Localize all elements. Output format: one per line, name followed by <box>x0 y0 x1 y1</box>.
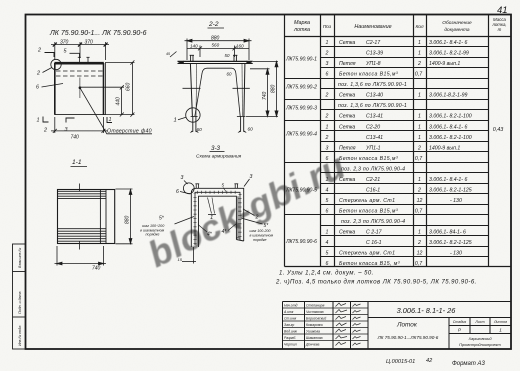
svg-text:1. Узлы 1,2,4 см. докум.: 1. Узлы 1,2,4 см. докум. – 50. <box>279 271 374 277</box>
3-3 U outline <box>191 188 243 247</box>
svg-text:1: 1 <box>418 40 421 46</box>
svg-text:1: 1 <box>174 118 177 124</box>
plan dashed wall lines <box>56 71 103 76</box>
svg-text:Сетка: Сетка <box>339 125 355 131</box>
title block role/name texts <box>283 304 326 347</box>
svg-text:370: 370 <box>85 40 94 46</box>
svg-text:140: 140 <box>190 43 198 48</box>
svg-text:1: 1 <box>418 93 421 99</box>
svg-text:поз. 1,3,6 по ЛК75.90.90-1: поз. 1,3,6 по ЛК75.90.90-1 <box>338 103 407 109</box>
svg-text:Кол: Кол <box>415 24 423 30</box>
svg-text:поз. 2,3 по ЛК75.90.90-4: поз. 2,3 по ЛК75.90.90-4 <box>341 167 405 173</box>
svg-text:2: 2 <box>417 61 421 67</box>
svg-text:Зав.гр: Зав.гр <box>284 323 294 327</box>
svg-text:Нач.отд: Нач.отд <box>284 304 297 308</box>
svg-text:ЛК75.90.90-2: ЛК75.90.90-2 <box>285 85 317 91</box>
svg-text:Петля: Петля <box>339 146 356 152</box>
svg-text:3.006.1- 8.2-1-125: 3.006.1- 8.2-1-125 <box>429 188 472 194</box>
svg-text:3.006.1- 8.4-1- 6: 3.006.1- 8.4-1- 6 <box>429 125 467 131</box>
svg-text:6: 6 <box>36 85 39 91</box>
svg-text:Петля: Петля <box>339 61 356 67</box>
svg-text:3.006.1- 8.1-1- 26: 3.006.1- 8.1-1- 26 <box>397 306 457 315</box>
svg-text:370: 370 <box>60 40 69 46</box>
svg-text:Борисовский: Борисовский <box>306 317 326 321</box>
svg-text:1: 1 <box>499 328 502 333</box>
svg-text:1: 1 <box>326 40 329 46</box>
svg-text:3: 3 <box>181 175 184 181</box>
svg-text:2: 2 <box>325 114 329 120</box>
svg-text:2-2: 2-2 <box>208 21 219 28</box>
svg-text:6: 6 <box>326 261 329 267</box>
svg-text:С13-39: С13-39 <box>366 51 383 57</box>
table rows text <box>325 40 472 267</box>
column кол numbers <box>415 40 423 267</box>
svg-text:Формат А3: Формат А3 <box>452 361 485 367</box>
2-2 left leg <box>190 64 199 134</box>
svg-text:3: 3 <box>250 174 253 180</box>
svg-text:порядке: порядке <box>253 238 267 242</box>
left margin strip <box>13 244 26 349</box>
svg-text:Степанцов: Степанцов <box>306 304 325 308</box>
svg-text:Ст.инж: Ст.инж <box>284 317 297 321</box>
svg-text:3.006.1- 8.2-1-125: 3.006.1- 8.2-1-125 <box>429 240 472 246</box>
plan corner detail circle 2 <box>51 59 61 69</box>
svg-text:т: т <box>498 27 502 32</box>
2-2 45 chamfer tick <box>170 52 177 58</box>
svg-text:660: 660 <box>126 82 132 91</box>
3-3 right inner mesh <box>236 196 239 238</box>
svg-text:740: 740 <box>262 91 268 100</box>
svg-text:0,7: 0,7 <box>415 261 423 267</box>
plan square <box>55 62 106 115</box>
svg-text:3-3: 3-3 <box>211 145 221 152</box>
svg-text:60: 60 <box>197 127 203 133</box>
svg-text:1: 1 <box>326 177 329 183</box>
svg-text:документа: документа <box>444 27 470 33</box>
2-2 top slab <box>178 61 253 64</box>
svg-text:5: 5 <box>326 251 329 257</box>
svg-text:3.006.1- 8.4-1- 6: 3.006.1- 8.4-1- 6 <box>429 40 467 46</box>
svg-text:880: 880 <box>271 84 277 93</box>
svg-text:С 2-17: С 2-17 <box>366 230 383 236</box>
svg-text:ЛК75.90.90-4: ЛК75.90.90-4 <box>285 132 317 138</box>
svg-text:1: 1 <box>326 125 329 131</box>
svg-text:Чертил: Чертил <box>284 343 297 347</box>
svg-text:5: 5 <box>326 198 329 204</box>
svg-text:Обозначение: Обозначение <box>442 20 472 26</box>
bottom margin texts <box>386 358 485 367</box>
svg-text:Вед.инж: Вед.инж <box>284 330 298 334</box>
3-3 bottom-left extension <box>182 247 196 264</box>
svg-text:ЛК75.90.90-6: ЛК75.90.90-6 <box>285 239 317 245</box>
svg-text:3: 3 <box>326 146 329 152</box>
svg-text:880: 880 <box>125 215 131 224</box>
notes <box>275 271 477 286</box>
2-2 right dim 880 <box>253 61 278 116</box>
svg-text:2: 2 <box>255 215 259 221</box>
svg-text:С13-41: С13-41 <box>366 114 383 120</box>
svg-text:Инв.№ подл.: Инв.№ подл. <box>18 325 22 346</box>
svg-text:2: 2 <box>37 48 41 54</box>
svg-text:2: 2 <box>325 51 329 57</box>
signatures squiggles <box>336 303 361 346</box>
svg-text:560: 560 <box>212 43 220 48</box>
2-2 leg mid ticks <box>183 87 250 89</box>
svg-text:Бетон класса В15,м³: Бетон класса В15,м³ <box>339 72 398 78</box>
2-2 right leg <box>237 64 247 134</box>
1-1 body <box>58 189 115 244</box>
svg-text:поз. 2,3 по ЛК75.90.90-4: поз. 2,3 по ЛК75.90.90-4 <box>341 219 405 225</box>
svg-text:0,7: 0,7 <box>415 156 423 162</box>
svg-text:Ц.00015-01: Ц.00015-01 <box>386 359 415 365</box>
leader to hole label <box>80 88 152 134</box>
svg-text:4: 4 <box>326 188 329 194</box>
svg-text:поз. 1,3,6 по ЛК75.90.90-1: поз. 1,3,6 по ЛК75.90.90-1 <box>338 82 407 88</box>
2-2 inner cavity <box>195 68 240 116</box>
svg-text:2: 2 <box>417 188 421 194</box>
svg-text:880: 880 <box>211 36 220 42</box>
svg-text:1: 1 <box>109 117 112 123</box>
svg-text:440: 440 <box>116 97 122 106</box>
svg-text:Ушакова: Ушакова <box>306 330 320 334</box>
svg-text:2: 2 <box>417 146 421 152</box>
svg-text:740: 740 <box>71 135 80 141</box>
svg-text:3: 3 <box>326 61 329 67</box>
1-1 centre ticks <box>79 184 81 250</box>
svg-text:порядке: порядке <box>146 233 160 237</box>
2-2 dim 880 top <box>185 39 252 61</box>
svg-text:2: 2 <box>325 93 329 99</box>
svg-text:160: 160 <box>236 43 244 48</box>
2-2 dim 140/560/160 <box>187 46 249 58</box>
left strip vertical labels <box>18 248 22 346</box>
svg-text:Марка: Марка <box>294 20 310 26</box>
svg-text:6: 6 <box>326 72 329 78</box>
svg-text:Сетка: Сетка <box>339 114 355 120</box>
plan right dim 440 <box>80 85 124 116</box>
svg-text:50: 50 <box>225 53 230 58</box>
plan center hole <box>79 86 82 89</box>
watermark block-gbi.ru <box>0 0 1 1</box>
svg-text:1: 1 <box>418 51 421 57</box>
2-2 detail circle 1 <box>186 108 200 122</box>
svg-text:Промстройниипроект: Промстройниипроект <box>459 342 501 347</box>
svg-text:1: 1 <box>418 125 421 131</box>
svg-text:3.006.1- 8.4-1- 6: 3.006.1- 8.4-1- 6 <box>429 177 467 183</box>
svg-text:2: 2 <box>325 135 329 141</box>
svg-text:С13-40: С13-40 <box>366 93 383 99</box>
svg-text:Поз: Поз <box>323 24 332 30</box>
svg-text:41: 41 <box>497 5 508 16</box>
svg-text:Сетка: Сетка <box>339 177 355 183</box>
svg-text:УП1-8: УП1-8 <box>366 61 381 67</box>
svg-text:6: 6 <box>326 209 329 215</box>
svg-text:42: 42 <box>426 358 433 364</box>
svg-text:Бетон класса В15, м³: Бетон класса В15, м³ <box>339 261 400 267</box>
svg-text:УП1-1: УП1-1 <box>366 146 381 152</box>
svg-text:С2-20: С2-20 <box>366 125 380 131</box>
svg-text:лотка: лотка <box>293 27 310 33</box>
3-3 mesh with stirrup ticks <box>195 192 240 245</box>
svg-text:С16-1: С16-1 <box>366 188 380 194</box>
svg-text:1400-9 вып.1: 1400-9 вып.1 <box>429 61 460 67</box>
svg-text:3: 3 <box>65 127 68 133</box>
svg-text:Листов: Листов <box>493 320 507 324</box>
svg-text:3.006.1-8.2-1-99: 3.006.1-8.2-1-99 <box>429 93 467 99</box>
svg-text:Взам.инв.№: Взам.инв.№ <box>18 248 22 268</box>
svg-text:12: 12 <box>417 251 423 257</box>
svg-text:ЛК75.90.90-3: ЛК75.90.90-3 <box>285 106 317 112</box>
column наименование <box>338 40 407 267</box>
stage mini table <box>453 320 507 333</box>
svg-text:Бетон класса В15,м³: Бетон класса В15,м³ <box>339 209 398 215</box>
svg-text:2: 2 <box>417 240 421 246</box>
3-3 callout circle top-left <box>183 183 194 194</box>
svg-text:в шахматном: в шахматном <box>250 234 274 238</box>
svg-text:Сетка: Сетка <box>339 40 355 46</box>
svg-text:Отверстие ф40: Отверстие ф40 <box>107 129 152 135</box>
svg-text:Разраб.: Разраб. <box>284 336 296 340</box>
svg-text:Стержень арм. Ст1: Стержень арм. Ст1 <box>339 198 395 204</box>
svg-text:Лоток: Лоток <box>396 322 418 329</box>
1-1 top band lines <box>57 191 106 198</box>
row lines <box>285 47 489 257</box>
svg-text:ЛК 75.90.90-1... ЛК 75.90.90-6: ЛК 75.90.90-1... ЛК 75.90.90-6 <box>49 30 147 37</box>
3-3 loop hooks above slab <box>195 184 238 189</box>
svg-text:2: 2 <box>36 71 40 77</box>
svg-text:3.006.1- 8.2-1-100: 3.006.1- 8.2-1-100 <box>429 135 472 141</box>
svg-text:740: 740 <box>92 266 101 272</box>
svg-text:А.инж: А.инж <box>283 310 294 314</box>
table grid <box>285 15 512 267</box>
svg-text:2. ч)Поз. 4,5 только для л: 2. ч)Поз. 4,5 только для лотков ЛК 75.90… <box>275 280 477 286</box>
svg-text:- 130: - 130 <box>450 198 462 204</box>
svg-text:С13-41: С13-41 <box>366 135 383 141</box>
svg-text:60: 60 <box>248 127 254 133</box>
svg-text:1: 1 <box>418 230 421 236</box>
1-1 right dim 880 <box>116 189 133 244</box>
svg-text:1: 1 <box>210 215 213 221</box>
svg-text:1: 1 <box>326 230 329 236</box>
svg-text:6: 6 <box>326 156 329 162</box>
1-1 bottom dim 740 <box>55 246 107 266</box>
svg-text:- 130: - 130 <box>450 251 462 257</box>
svg-text:6: 6 <box>176 189 179 195</box>
svg-text:3.006.1- 8.2-1-100: 3.006.1- 8.2-1-100 <box>429 114 472 120</box>
plan bottom dim 740 <box>51 117 108 133</box>
svg-text:Сетка: Сетка <box>339 230 355 236</box>
svg-text:Бетон класса В15,м³: Бетон класса В15,м³ <box>339 156 398 162</box>
column обозначение документа <box>429 40 472 257</box>
svg-text:Стадия: Стадия <box>453 320 467 324</box>
svg-text:60: 60 <box>227 72 232 77</box>
marka labels <box>285 57 317 246</box>
svg-text:5: 5 <box>222 183 225 188</box>
svg-text:3.006.1- 8.2-1-99: 3.006.1- 8.2-1-99 <box>429 51 469 57</box>
title block small rows <box>283 308 369 341</box>
2-2 loop hooks above slab <box>190 55 238 61</box>
svg-text:Шаманова: Шаманова <box>306 336 323 340</box>
svg-text:1: 1 <box>37 118 40 124</box>
svg-text:45: 45 <box>166 52 170 56</box>
svg-text:1-1: 1-1 <box>72 159 82 166</box>
svg-text:С2-21: С2-21 <box>366 177 380 183</box>
svg-text:С2-17: С2-17 <box>366 40 381 46</box>
svg-text:Комаровск: Комаровск <box>306 323 323 327</box>
svg-text:Сетка: Сетка <box>339 93 355 99</box>
plan bottom flag 3 <box>66 118 75 123</box>
svg-text:ЛК 75.90.90-1...ЛК75.90.90-6: ЛК 75.90.90-1...ЛК75.90.90-6 <box>377 335 439 340</box>
column поз numbers <box>325 40 329 267</box>
svg-text:2: 2 <box>43 128 47 134</box>
2-2 right dim 740 <box>246 69 278 117</box>
svg-text:ЛК75.90.90-5: ЛК75.90.90-5 <box>285 188 317 194</box>
svg-text:Схема армирования: Схема армирования <box>196 154 242 160</box>
svg-text:шаг 100-200: шаг 100-200 <box>250 229 271 233</box>
svg-text:Наименование: Наименование <box>354 24 391 30</box>
svg-text:ЛК75.90.90-1: ЛК75.90.90-1 <box>285 57 317 63</box>
svg-text:Чистякова: Чистякова <box>306 310 324 314</box>
svg-text:Лист: Лист <box>474 320 484 324</box>
svg-text:Стержень арм. Ст1: Стержень арм. Ст1 <box>339 251 395 257</box>
svg-text:0,43: 0,43 <box>493 127 504 133</box>
svg-text:3.006.1- 84-1- 6: 3.006.1- 84-1- 6 <box>429 230 466 236</box>
plan right dim 660 <box>106 60 135 116</box>
svg-text:1: 1 <box>418 135 421 141</box>
plan bottom flag 1 right <box>107 117 112 123</box>
svg-text:Харьковский: Харьковский <box>467 336 492 341</box>
svg-text:4: 4 <box>326 240 329 246</box>
plan top edge ticks <box>78 57 90 62</box>
svg-text:Подп. и дата: Подп. и дата <box>18 292 22 315</box>
svg-text:1: 1 <box>418 114 421 120</box>
plan top dim 370/370 <box>51 42 109 60</box>
1-1 bottom band lines <box>57 229 106 242</box>
svg-text:Дончева: Дончева <box>305 343 319 347</box>
svg-text:1400-9 вып.1: 1400-9 вып.1 <box>429 146 460 152</box>
svg-text:0,7: 0,7 <box>415 72 423 78</box>
svg-text:1: 1 <box>418 177 421 183</box>
table header <box>293 17 507 33</box>
svg-text:12: 12 <box>417 198 423 204</box>
svg-text:0,7: 0,7 <box>415 209 423 215</box>
svg-text:15: 15 <box>178 257 183 262</box>
svg-text:С 16-1: С 16-1 <box>366 240 382 246</box>
